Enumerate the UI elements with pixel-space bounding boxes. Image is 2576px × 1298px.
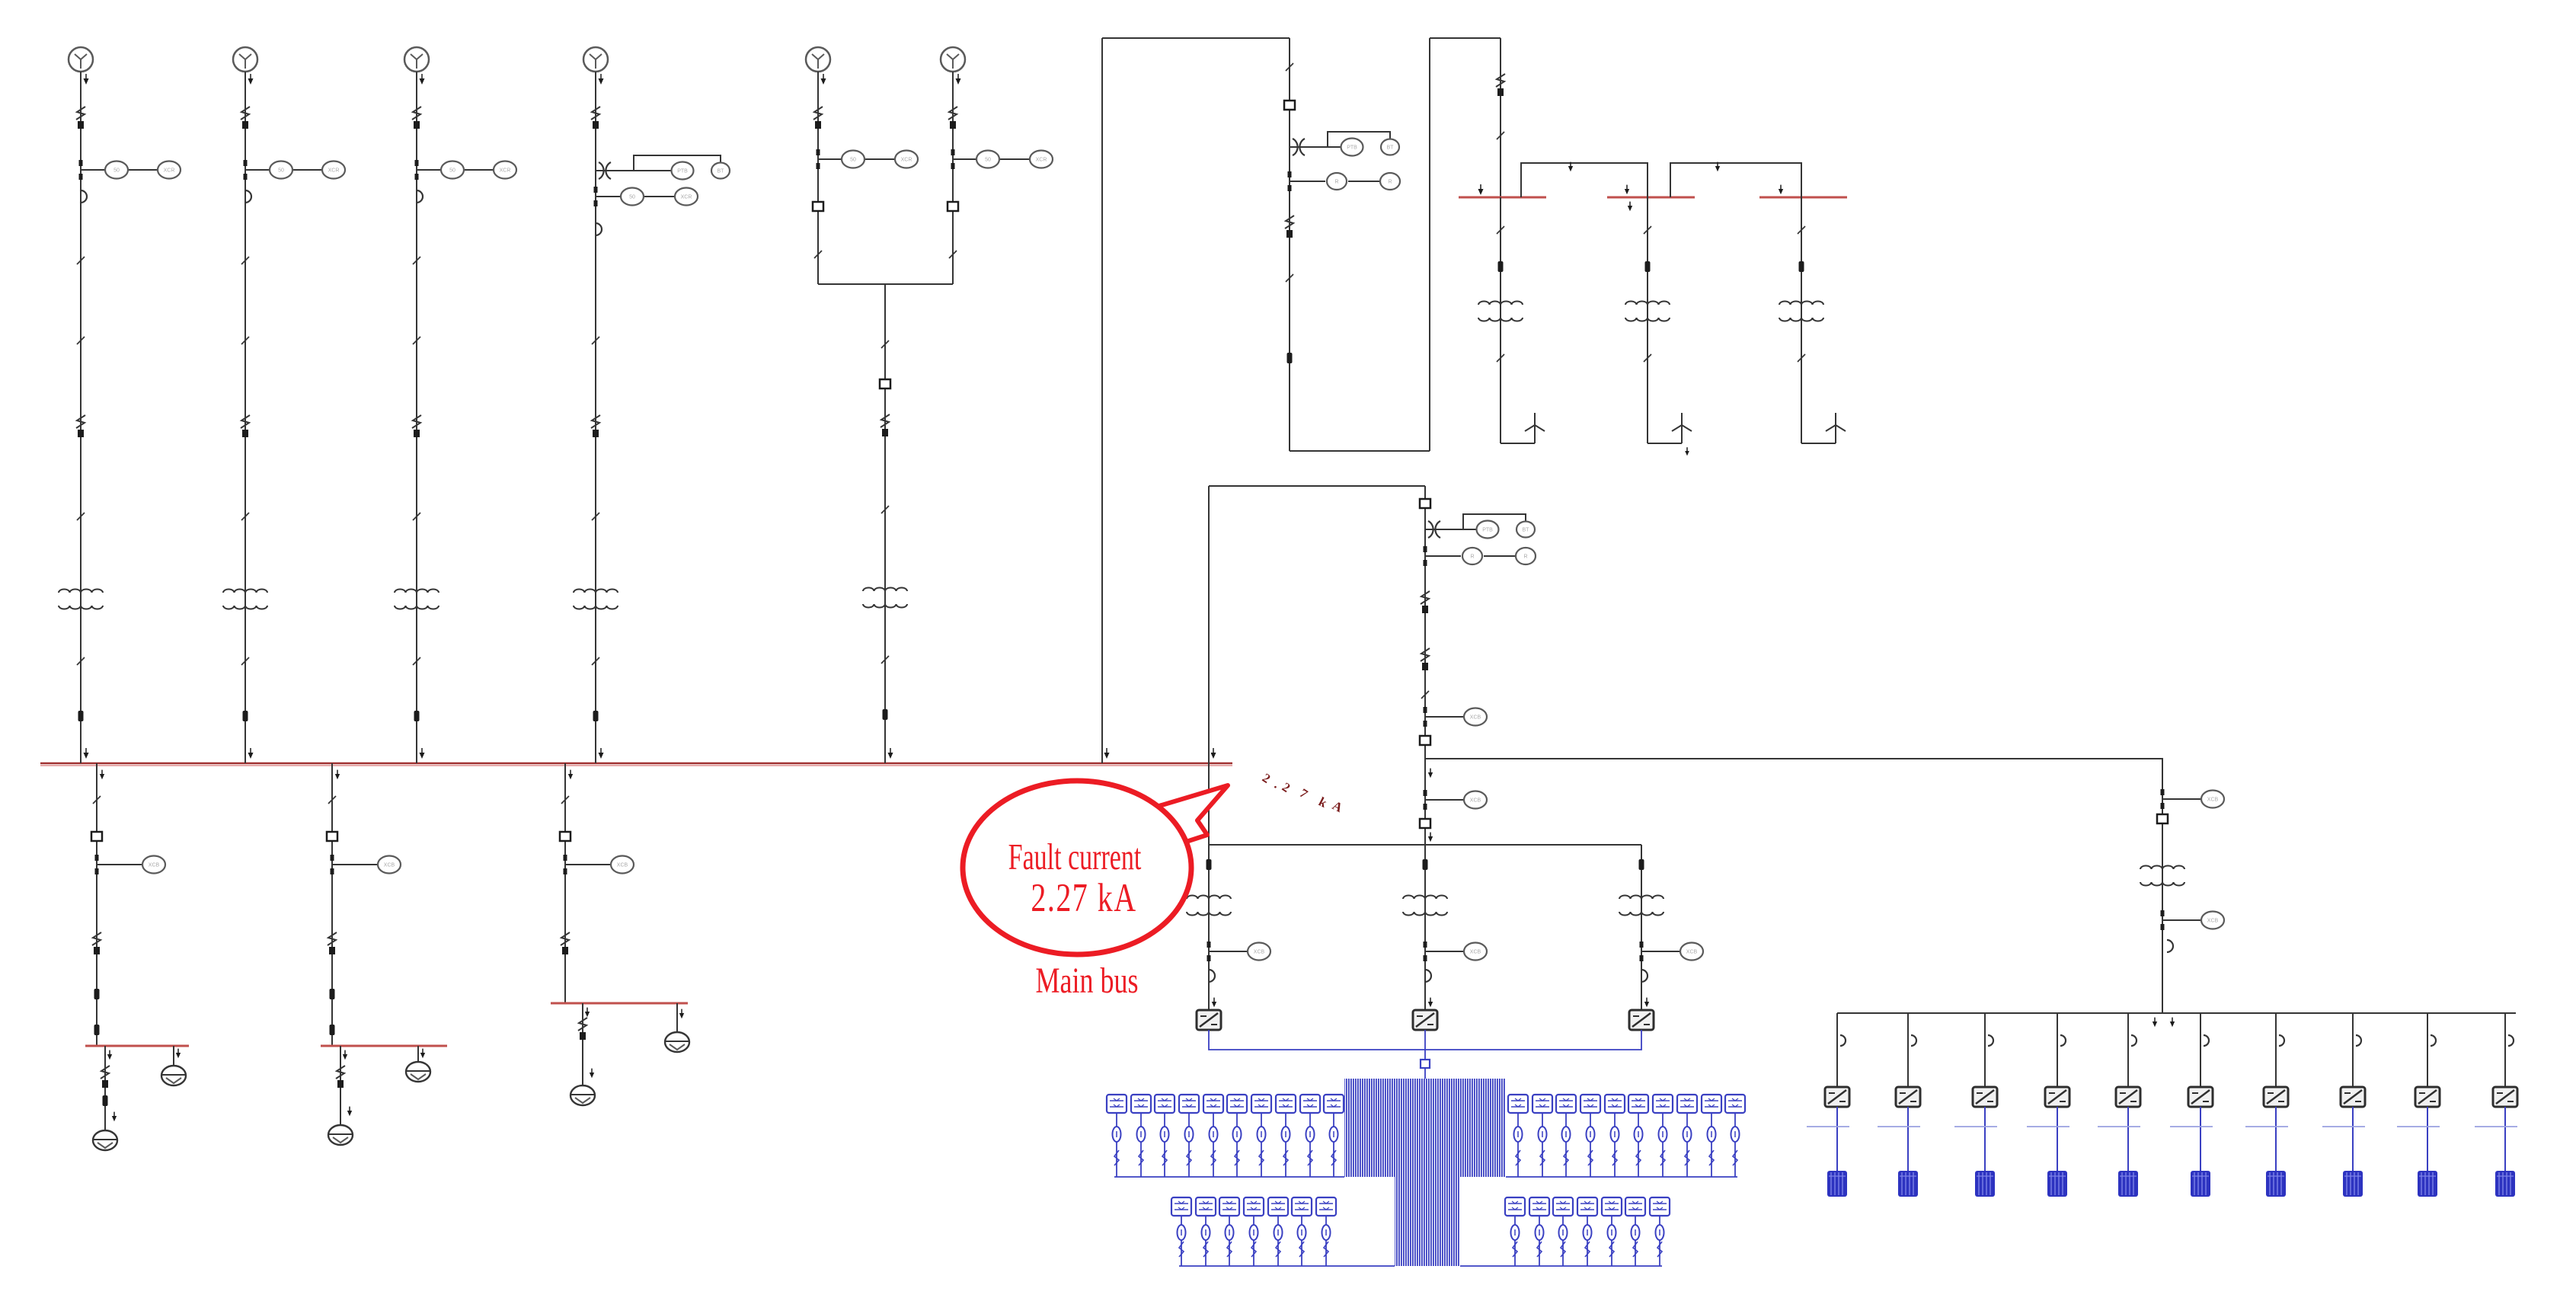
switch load feeder B xyxy=(328,932,337,954)
wire MCC A motor2 xyxy=(173,1046,174,1066)
battery bank B6 xyxy=(2191,1171,2210,1197)
transformer battery T xyxy=(2140,866,2184,886)
wind turbine WT2 xyxy=(1672,413,1692,443)
PV string row1 L8 xyxy=(1276,1095,1296,1177)
PV string row2 L2 xyxy=(1196,1197,1216,1266)
PV string row1 R2 xyxy=(1532,1095,1552,1177)
svg-text:50: 50 xyxy=(113,168,120,174)
battery bank B8 xyxy=(2343,1171,2363,1197)
relay 50 feeder 1 xyxy=(105,161,128,179)
breaker node load feeder C xyxy=(560,832,570,841)
transformer wind T3 xyxy=(1779,302,1823,321)
flow arrow PV 1 xyxy=(1212,998,1216,1008)
PV string row1 R5 xyxy=(1605,1095,1625,1177)
CT marks feeder 6 xyxy=(951,149,955,155)
wire relay tap feeder 2 xyxy=(245,169,270,171)
flow arrow merged feeder bus xyxy=(888,748,893,759)
flow arrow PV 3 xyxy=(1644,998,1649,1008)
svg-text:50: 50 xyxy=(629,195,635,200)
svg-text:50: 50 xyxy=(278,168,284,174)
svg-text:R: R xyxy=(1470,555,1474,560)
fuse load feeder A b xyxy=(94,1025,100,1035)
tick feeder 1 b xyxy=(77,337,85,344)
PT fuse group loop1 xyxy=(1293,139,1305,155)
dc link battery string 4 xyxy=(2027,1126,2069,1127)
wire battery dc 1 xyxy=(1836,1107,1838,1171)
transformer PV T3 xyxy=(1619,896,1664,916)
breaker hook PV 1 xyxy=(1209,970,1215,982)
CT marks central XCB2 xyxy=(1424,790,1427,796)
svg-text:XCB: XCB xyxy=(2207,919,2219,924)
relay XCB central 2 xyxy=(1464,791,1487,809)
MCC bus B xyxy=(321,1045,447,1047)
PV string row2 L1 xyxy=(1171,1197,1191,1266)
battery bank B7 xyxy=(2266,1171,2286,1197)
fuse feeder 3 xyxy=(414,711,420,721)
PV string row1 L3 xyxy=(1155,1095,1175,1177)
relay XCR feeder 5 xyxy=(895,151,918,168)
relay XCB load feeder C xyxy=(611,856,634,874)
svg-text:XCB: XCB xyxy=(1470,798,1481,804)
tick feeder 5 xyxy=(814,251,822,258)
wire loop1 left vertical xyxy=(1101,38,1103,763)
grid source G3 xyxy=(404,47,429,72)
fuse load feeder B xyxy=(330,989,335,999)
wire relay tap feeder 3 xyxy=(417,169,441,171)
svg-text:BT: BT xyxy=(718,169,725,174)
grid source G2 xyxy=(233,47,257,72)
wire XCB tap load feeder B xyxy=(332,864,378,865)
PV string row1 R4 xyxy=(1580,1095,1600,1177)
flow arrow feeder 3 bus xyxy=(420,748,425,759)
overlay fault value 2.27 kA xyxy=(1260,770,1346,815)
wire central XCB1 tap xyxy=(1425,716,1464,718)
PV string row1 R6 xyxy=(1628,1095,1648,1177)
switch merged feeder xyxy=(881,414,890,436)
battery bank B3 xyxy=(1975,1171,1995,1197)
relay XCR feeder 2 xyxy=(322,161,345,179)
flow arrow central pv xyxy=(1428,833,1433,842)
PV string row2 R6 xyxy=(1625,1197,1645,1266)
svg-text:XCR: XCR xyxy=(901,158,912,163)
battery bus xyxy=(1837,1012,2516,1014)
wire relay tap feeder 4 xyxy=(596,196,621,197)
wire PV branch 1 xyxy=(1208,845,1210,1010)
CT marks load feeder C xyxy=(564,855,567,861)
transformer T4 xyxy=(574,590,618,609)
disconnect switch feeder 6 xyxy=(948,107,957,129)
wire wind branch 1 xyxy=(1500,197,1501,443)
flow arrow battery bus b xyxy=(2170,1018,2175,1028)
wire central XCB2 tap xyxy=(1425,799,1464,801)
inverter battery string 5 xyxy=(2116,1087,2140,1107)
flow arrow feeder 2 top xyxy=(248,74,254,85)
battery bank B4 xyxy=(2047,1171,2067,1197)
battery bank B5 xyxy=(2118,1171,2138,1197)
PV string row1 L2 xyxy=(1131,1095,1151,1177)
breaker hook battery string 1 xyxy=(1840,1035,1846,1046)
relay XCR feeder 4 xyxy=(675,188,698,206)
inverter battery string 8 xyxy=(2341,1087,2365,1107)
svg-text:XCB: XCB xyxy=(1254,950,1265,955)
wire wind tie 1 xyxy=(1521,163,1648,197)
grid source G5 xyxy=(806,47,830,72)
breaker hook battery string 7 xyxy=(2279,1035,2284,1046)
svg-text:BT: BT xyxy=(1387,145,1395,151)
PV string row1 L5 xyxy=(1203,1095,1223,1177)
PV string row2 R5 xyxy=(1602,1197,1622,1266)
tick loop1 a xyxy=(1286,63,1293,71)
tick feeder 3 d xyxy=(413,513,420,520)
MCC bus A xyxy=(85,1045,189,1047)
flow arrow MCC C motor1 xyxy=(590,1069,594,1079)
fuse PV branch 2 xyxy=(1423,859,1428,870)
grid source G6 xyxy=(941,47,965,72)
relay XCB central 1 xyxy=(1464,708,1487,726)
switch MCC B motor1 xyxy=(336,1066,345,1088)
motor M-B2 xyxy=(406,1062,430,1082)
breaker hook PV 2 xyxy=(1425,970,1431,982)
inverter battery string 10 xyxy=(2493,1087,2517,1107)
dc link battery string 7 xyxy=(2245,1126,2288,1127)
transformer wind T2 xyxy=(1625,302,1670,321)
svg-text:2.27 kA: 2.27 kA xyxy=(1031,876,1136,921)
wire MCC B motor2 xyxy=(417,1046,419,1062)
breaker node central a xyxy=(1420,499,1430,508)
wire battery dc 4 xyxy=(2057,1107,2058,1171)
inverter PV 3 xyxy=(1629,1010,1654,1030)
wire battery dc 2 xyxy=(1907,1107,1909,1171)
PV string row2 L7 xyxy=(1316,1197,1336,1266)
fuse PV branch 1 xyxy=(1207,859,1212,870)
svg-text:XCB: XCB xyxy=(2207,798,2219,803)
tick wind feeder xyxy=(1497,132,1504,139)
inverter battery string 7 xyxy=(2264,1087,2288,1107)
wire loop1 top xyxy=(1102,37,1290,39)
wire battery string 5 xyxy=(2127,1013,2129,1088)
breaker node merged feeder xyxy=(880,379,890,388)
CT marks feeder 2 xyxy=(244,160,248,166)
fuse wind branch 1 xyxy=(1498,261,1504,272)
tick feeder 1 c xyxy=(77,657,85,665)
PV string row2 R7 xyxy=(1650,1197,1670,1266)
wire relay tap loop1 xyxy=(1290,181,1325,182)
flow arrow central left xyxy=(1211,748,1216,759)
switch load feeder A xyxy=(92,932,101,954)
inverter PV 2 xyxy=(1413,1010,1437,1030)
wire loop1 bottom xyxy=(1290,450,1430,452)
wire MCC B motor1 xyxy=(340,1046,341,1125)
tick feeder 2 c xyxy=(241,657,249,665)
motor M-C2 xyxy=(665,1032,689,1052)
PV string row1 R7 xyxy=(1653,1095,1673,1177)
wire central left vertical xyxy=(1208,486,1210,845)
flow arrow feeder 1 top xyxy=(84,74,89,85)
relay XCB battery 2 xyxy=(2201,912,2224,929)
relay 50 feeder 6 xyxy=(976,151,999,168)
tick wind branch 1 b xyxy=(1497,354,1504,362)
relay XCR feeder 3 xyxy=(494,161,516,179)
wire relay tap feeder 5 xyxy=(818,158,842,160)
fault balloon bubble xyxy=(963,781,1191,954)
flow arrow MCC C motor2 xyxy=(679,1009,684,1019)
flow arrow wind turbine 2 xyxy=(1685,447,1689,456)
flow arrow feeder 2 bus xyxy=(248,748,254,759)
transformer T2 xyxy=(223,590,267,609)
transformer PV T2 xyxy=(1403,896,1447,916)
tick feeder 3 b xyxy=(413,337,420,344)
wire XCB tap load feeder C xyxy=(565,864,611,865)
tick feeder 4 b xyxy=(592,337,599,344)
wire PV dc center xyxy=(1424,1030,1426,1079)
transformer PV T1 xyxy=(1187,896,1231,916)
inverter battery string 6 xyxy=(2188,1087,2213,1107)
fuse wind branch 2 xyxy=(1645,261,1651,272)
tick feeder 1 a xyxy=(77,257,85,264)
breaker hook battery string 5 xyxy=(2131,1035,2137,1046)
grid source G1 xyxy=(69,47,93,72)
disconnect switch feeder 2 xyxy=(241,107,250,129)
wire battery dc 8 xyxy=(2352,1107,2354,1171)
PV collector bus xyxy=(1209,844,1641,846)
svg-text:Fault current: Fault current xyxy=(1008,837,1142,878)
wire central right vertical xyxy=(1424,486,1426,845)
wire battery dc 5 xyxy=(2127,1107,2129,1171)
breaker hook feeder 4 xyxy=(596,223,602,235)
svg-text:XCB: XCB xyxy=(1470,950,1481,955)
flow arrow MCC C1 xyxy=(585,1008,590,1018)
wire battery string 1 xyxy=(1836,1013,1838,1088)
PV string row1 L10 xyxy=(1324,1095,1344,1177)
wire wind tie 2 xyxy=(1670,163,1801,197)
breaker hook battery xyxy=(2167,940,2173,952)
PT fuse group central xyxy=(1428,521,1440,538)
svg-text:XCB: XCB xyxy=(149,863,160,868)
wire feeder 2 vertical xyxy=(244,72,246,763)
svg-text:XCB: XCB xyxy=(1470,715,1481,721)
wire loop2 top bar xyxy=(1209,485,1425,487)
tick merged feeder c xyxy=(881,656,889,663)
tick wind branch 3 xyxy=(1798,226,1805,234)
wind bus 1 xyxy=(1459,197,1546,199)
wire MCC C motor1 xyxy=(582,1003,583,1085)
relay R1 loop1 xyxy=(1327,173,1347,190)
PV string row1 R3 xyxy=(1556,1095,1576,1177)
tick load feeder B xyxy=(328,796,336,804)
flow arrow MCC A motor2 xyxy=(176,1049,181,1059)
relay XCB load feeder B xyxy=(378,856,401,874)
wire wind branch 2 xyxy=(1647,197,1648,443)
svg-text:50: 50 xyxy=(449,168,455,174)
switch loop1 xyxy=(1285,216,1294,238)
fuse merged feeder xyxy=(883,709,888,720)
switch central b xyxy=(1421,648,1430,670)
wire feeder 5 vertical xyxy=(817,72,819,284)
wire feeder 3 vertical xyxy=(416,72,417,763)
breaker hook feeder 1 xyxy=(81,190,87,203)
svg-text:Main bus: Main bus xyxy=(1036,961,1139,1001)
wire PV XCB tap 3 xyxy=(1641,951,1680,952)
svg-text:XCB: XCB xyxy=(384,863,395,868)
tick merged feeder b xyxy=(881,506,889,513)
PV string row1 R1 xyxy=(1508,1095,1528,1177)
flow arrow wind tie 1 xyxy=(1568,162,1573,172)
flow arrow wind tie 2 xyxy=(1715,162,1720,172)
CT marks battery XCB1 xyxy=(2161,789,2165,795)
svg-text:XCB: XCB xyxy=(1686,950,1698,955)
wire MCC C motor2 xyxy=(676,1003,678,1032)
battery bank B2 xyxy=(1898,1171,1918,1197)
PV string row1 L6 xyxy=(1227,1095,1247,1177)
tick load feeder A xyxy=(93,796,101,804)
wire wind branch 3 xyxy=(1801,197,1802,443)
flow arrow feeder 3 top xyxy=(420,74,425,85)
wire battery string 2 xyxy=(1907,1013,1909,1088)
PV string bus row1 right xyxy=(1506,1176,1737,1178)
wire relay tap central xyxy=(1425,555,1461,557)
svg-text:R: R xyxy=(1388,180,1392,185)
flow arrow MCC A motor1 xyxy=(112,1112,117,1122)
switch feeder 1 lower xyxy=(76,415,85,437)
CT marks central XCB1 xyxy=(1424,707,1427,713)
relay XCB battery 1 xyxy=(2201,791,2224,808)
CT marks PV 2 xyxy=(1424,942,1427,948)
svg-text:PTB: PTB xyxy=(1482,528,1493,533)
tick feeder 1 d xyxy=(77,513,85,520)
node PV dc xyxy=(1421,1060,1430,1068)
inverter battery string 3 xyxy=(1973,1087,1997,1107)
switch MCC C motor1 xyxy=(578,1018,587,1040)
dc link battery string 5 xyxy=(2098,1126,2140,1127)
relay 50 feeder 4 xyxy=(621,188,644,206)
wire battery dc 9 xyxy=(2427,1107,2428,1171)
transformer T3 xyxy=(395,590,439,609)
relay XCB PV 1 xyxy=(1248,943,1270,961)
breaker node load feeder A xyxy=(91,832,102,841)
relay XCR feeder 1 xyxy=(158,161,181,179)
PV array block (aggregated strings) xyxy=(1344,1079,1506,1266)
relay 50 feeder 3 xyxy=(441,161,464,179)
wire feeder 4 vertical xyxy=(595,72,596,763)
wind turbine WT1 xyxy=(1525,413,1545,443)
flow arrow feeder 4 top xyxy=(599,74,604,85)
breaker hook feeder 2 xyxy=(245,190,251,203)
fuse loop1 xyxy=(1287,353,1293,363)
breaker node battery xyxy=(2157,814,2168,823)
wind bus 2 xyxy=(1607,197,1695,199)
PV string row1 R10 xyxy=(1725,1095,1745,1177)
breaker hook battery string 9 xyxy=(2431,1035,2436,1046)
flow arrow load feeder A xyxy=(100,770,104,780)
relay XCR feeder 6 xyxy=(1030,151,1053,168)
dc link battery string 10 xyxy=(2475,1126,2517,1127)
fault balloon tail xyxy=(1139,785,1228,846)
tick wind branch 2 b xyxy=(1644,354,1651,362)
fuse PV branch 3 xyxy=(1639,859,1644,870)
transformer wind T1 xyxy=(1478,302,1523,321)
flow arrow PV 2 xyxy=(1428,998,1433,1008)
wire PV dc tie xyxy=(1209,1030,1641,1050)
switch MCC A motor1 xyxy=(101,1066,110,1088)
PV string row1 R8 xyxy=(1677,1095,1697,1177)
breaker hook battery string 4 xyxy=(2060,1035,2066,1046)
tick wind branch 3 b xyxy=(1798,354,1805,362)
breaker hook PV 3 xyxy=(1641,970,1648,982)
relay XCB PV 2 xyxy=(1464,943,1487,961)
motor M-C1 xyxy=(570,1085,595,1105)
svg-text:PTB: PTB xyxy=(677,169,688,174)
wire MCC A motor1 xyxy=(104,1046,106,1130)
flow arrow feeder 6 top xyxy=(956,74,961,85)
relay XCB load feeder A xyxy=(142,856,165,874)
relay 50 feeder 5 xyxy=(842,151,865,168)
wire battery XCB2 tap xyxy=(2162,919,2201,921)
PV string row1 L7 xyxy=(1251,1095,1271,1177)
disconnect switch feeder 5 xyxy=(813,107,823,129)
CT marks PV 1 xyxy=(1207,942,1211,948)
PV string row1 L9 xyxy=(1300,1095,1320,1177)
tick wind branch 1 xyxy=(1497,226,1504,234)
CT marks loop1 xyxy=(1288,171,1292,177)
fuse MCC A motor1 xyxy=(103,1095,108,1106)
breaker node feeder 6 xyxy=(948,202,958,211)
wire relay tap feeder 1 xyxy=(81,169,105,171)
svg-text:XCR: XCR xyxy=(681,195,692,200)
flow arrow MCC B motor2 xyxy=(420,1049,425,1059)
wire battery dc 7 xyxy=(2275,1107,2277,1171)
dc link battery string 2 xyxy=(1878,1126,1920,1127)
tick feeder 2 d xyxy=(241,513,249,520)
wire battery trunk xyxy=(1425,759,2162,788)
PV string row1 R9 xyxy=(1702,1095,1721,1177)
wire battery string 10 xyxy=(2504,1013,2506,1088)
grid source G4 xyxy=(583,47,608,72)
breaker hook feeder 3 xyxy=(417,190,423,203)
wire PV branch 2 xyxy=(1424,845,1426,1010)
wire PV branch 3 xyxy=(1641,845,1642,1010)
switch load feeder C xyxy=(561,932,570,954)
tick feeder 3 c xyxy=(413,657,420,665)
motor M-A1 xyxy=(93,1130,117,1150)
PV string row2 R2 xyxy=(1529,1197,1549,1266)
flow arrow feeder 5 top xyxy=(821,74,826,85)
PV string row2 L3 xyxy=(1219,1197,1239,1266)
wire feeder 6 vertical xyxy=(952,72,954,284)
tick feeder 4 c xyxy=(592,657,599,665)
PV string row2 R4 xyxy=(1577,1197,1597,1266)
flow arrow wind bus 2a xyxy=(1625,185,1629,195)
flow arrow wind bus 1 xyxy=(1478,184,1484,195)
relay 50 feeder 2 xyxy=(270,161,292,179)
flow arrow battery bus a xyxy=(2153,1018,2157,1028)
wire loop2 top xyxy=(1430,37,1501,39)
switch feeder 2 lower xyxy=(241,415,250,437)
flow arrow wind bus 2b xyxy=(1628,202,1632,212)
wire relay tap feeder 6 xyxy=(953,158,976,160)
PV string bus row2 right xyxy=(1460,1265,1662,1267)
CT marks feeder 1 xyxy=(79,160,83,166)
CT marks battery XCB2 xyxy=(2161,910,2165,916)
relay R2 loop1 xyxy=(1380,173,1400,190)
breaker hook battery string 8 xyxy=(2356,1035,2361,1046)
CT marks feeder 4 xyxy=(594,187,598,193)
flow arrow wind bus 3 xyxy=(1779,185,1783,195)
wind bus 3 xyxy=(1759,197,1847,199)
wire merged feeder vertical xyxy=(884,284,886,763)
wire PV XCB tap 1 xyxy=(1209,951,1248,952)
wire battery string 3 xyxy=(1984,1013,1986,1088)
inverter battery string 1 xyxy=(1825,1087,1849,1107)
